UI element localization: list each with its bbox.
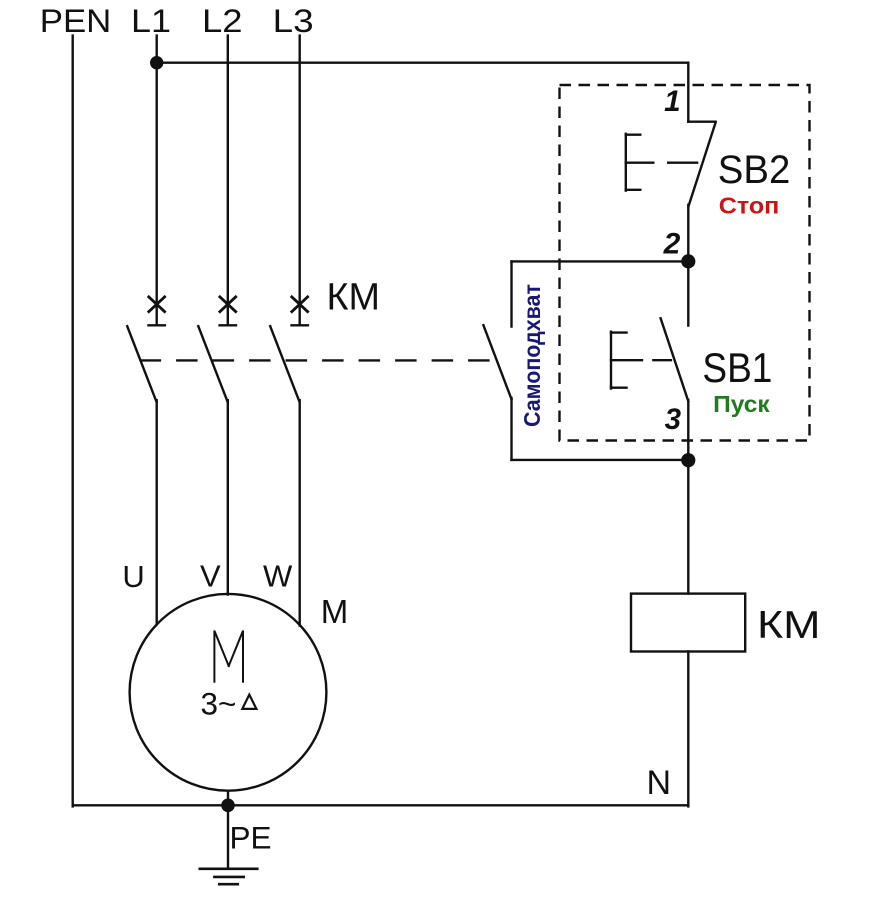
ground lead [227, 805, 229, 869]
wire node 2 to SB1 terminal [687, 261, 689, 325]
wire self-hold upper vertical [510, 261, 512, 326]
motor label delta [242, 695, 256, 709]
svg-text:КМ: КМ [757, 604, 821, 647]
svg-text:M: M [321, 593, 349, 630]
wire coil to N corner [687, 652, 689, 807]
wire SB1 to node 3 [687, 400, 689, 460]
wire control vertical to SB2 [687, 63, 689, 122]
wire PEN vertical [71, 36, 73, 807]
wire control tap horizontal [157, 62, 689, 64]
ground symbol [200, 869, 257, 884]
wire node 3 to coil [687, 460, 689, 593]
button SB2 blade [689, 123, 716, 206]
wire self-hold top horizontal to node 2 [512, 260, 689, 262]
svg-text:Стоп: Стоп [719, 192, 780, 218]
svg-text:PEN: PEN [40, 3, 112, 39]
coil KM rectangle [631, 594, 745, 652]
contactor KM pole 2 contact cross [220, 297, 236, 325]
svg-text:3~: 3~ [201, 686, 237, 722]
svg-text:КМ: КМ [327, 277, 381, 319]
contactor KM pole 1 blade [127, 326, 156, 401]
contactor KM pole 3 blade [270, 326, 299, 401]
wire pole 3 to motor W [299, 400, 301, 625]
contactor KM pole 3 contact cross [292, 297, 308, 325]
svg-text:N: N [647, 764, 672, 802]
wire self-hold bottom horizontal to node 3 [512, 459, 689, 461]
button SB2 terminal jog [688, 120, 715, 122]
svg-text:3: 3 [665, 403, 682, 436]
svg-text:L2: L2 [202, 3, 243, 39]
contactor KM pole 1 contact cross [149, 297, 165, 325]
svg-text:Пуск: Пуск [713, 391, 770, 417]
svg-text:SB1: SB1 [702, 344, 772, 391]
svg-text:Самоподхват: Самоподхват [519, 284, 545, 427]
button SB1 plunger [611, 332, 671, 389]
svg-text:V: V [200, 559, 221, 594]
svg-text:SB2: SB2 [718, 148, 791, 192]
button SB1 blade [661, 318, 689, 401]
wire pole 2 to motor V [227, 400, 229, 594]
node junction PE [221, 799, 235, 813]
wire SB2 to node 2 [687, 205, 689, 262]
svg-text:L3: L3 [273, 3, 314, 39]
svg-text:W: W [263, 559, 293, 594]
motor circle [130, 594, 327, 791]
contactor KM pole 2 blade [198, 326, 227, 401]
wire self-hold lower vertical [510, 398, 512, 460]
node junction 2 [681, 254, 695, 268]
node junction L1 tap [150, 56, 163, 69]
dashed enclosure box SB1 SB2 [560, 85, 810, 441]
motor bottom stub [227, 791, 229, 806]
svg-text:PE: PE [230, 820, 272, 856]
svg-text:1: 1 [664, 85, 680, 118]
wire bottom neutral horizontal [73, 804, 689, 806]
node junction 3 [681, 453, 695, 467]
mechanical link dashed line [140, 359, 498, 361]
contact KM self-hold blade [483, 325, 511, 399]
button SB2 plunger [626, 134, 697, 191]
wire L2 vertical [227, 36, 229, 326]
svg-text:U: U [122, 559, 144, 594]
wire L3 vertical [299, 36, 301, 326]
motor letter M [214, 631, 243, 681]
wire pole 1 to motor U [155, 400, 157, 624]
svg-text:L1: L1 [131, 3, 171, 39]
svg-text:2: 2 [663, 228, 681, 261]
wire L1 vertical [155, 36, 157, 326]
